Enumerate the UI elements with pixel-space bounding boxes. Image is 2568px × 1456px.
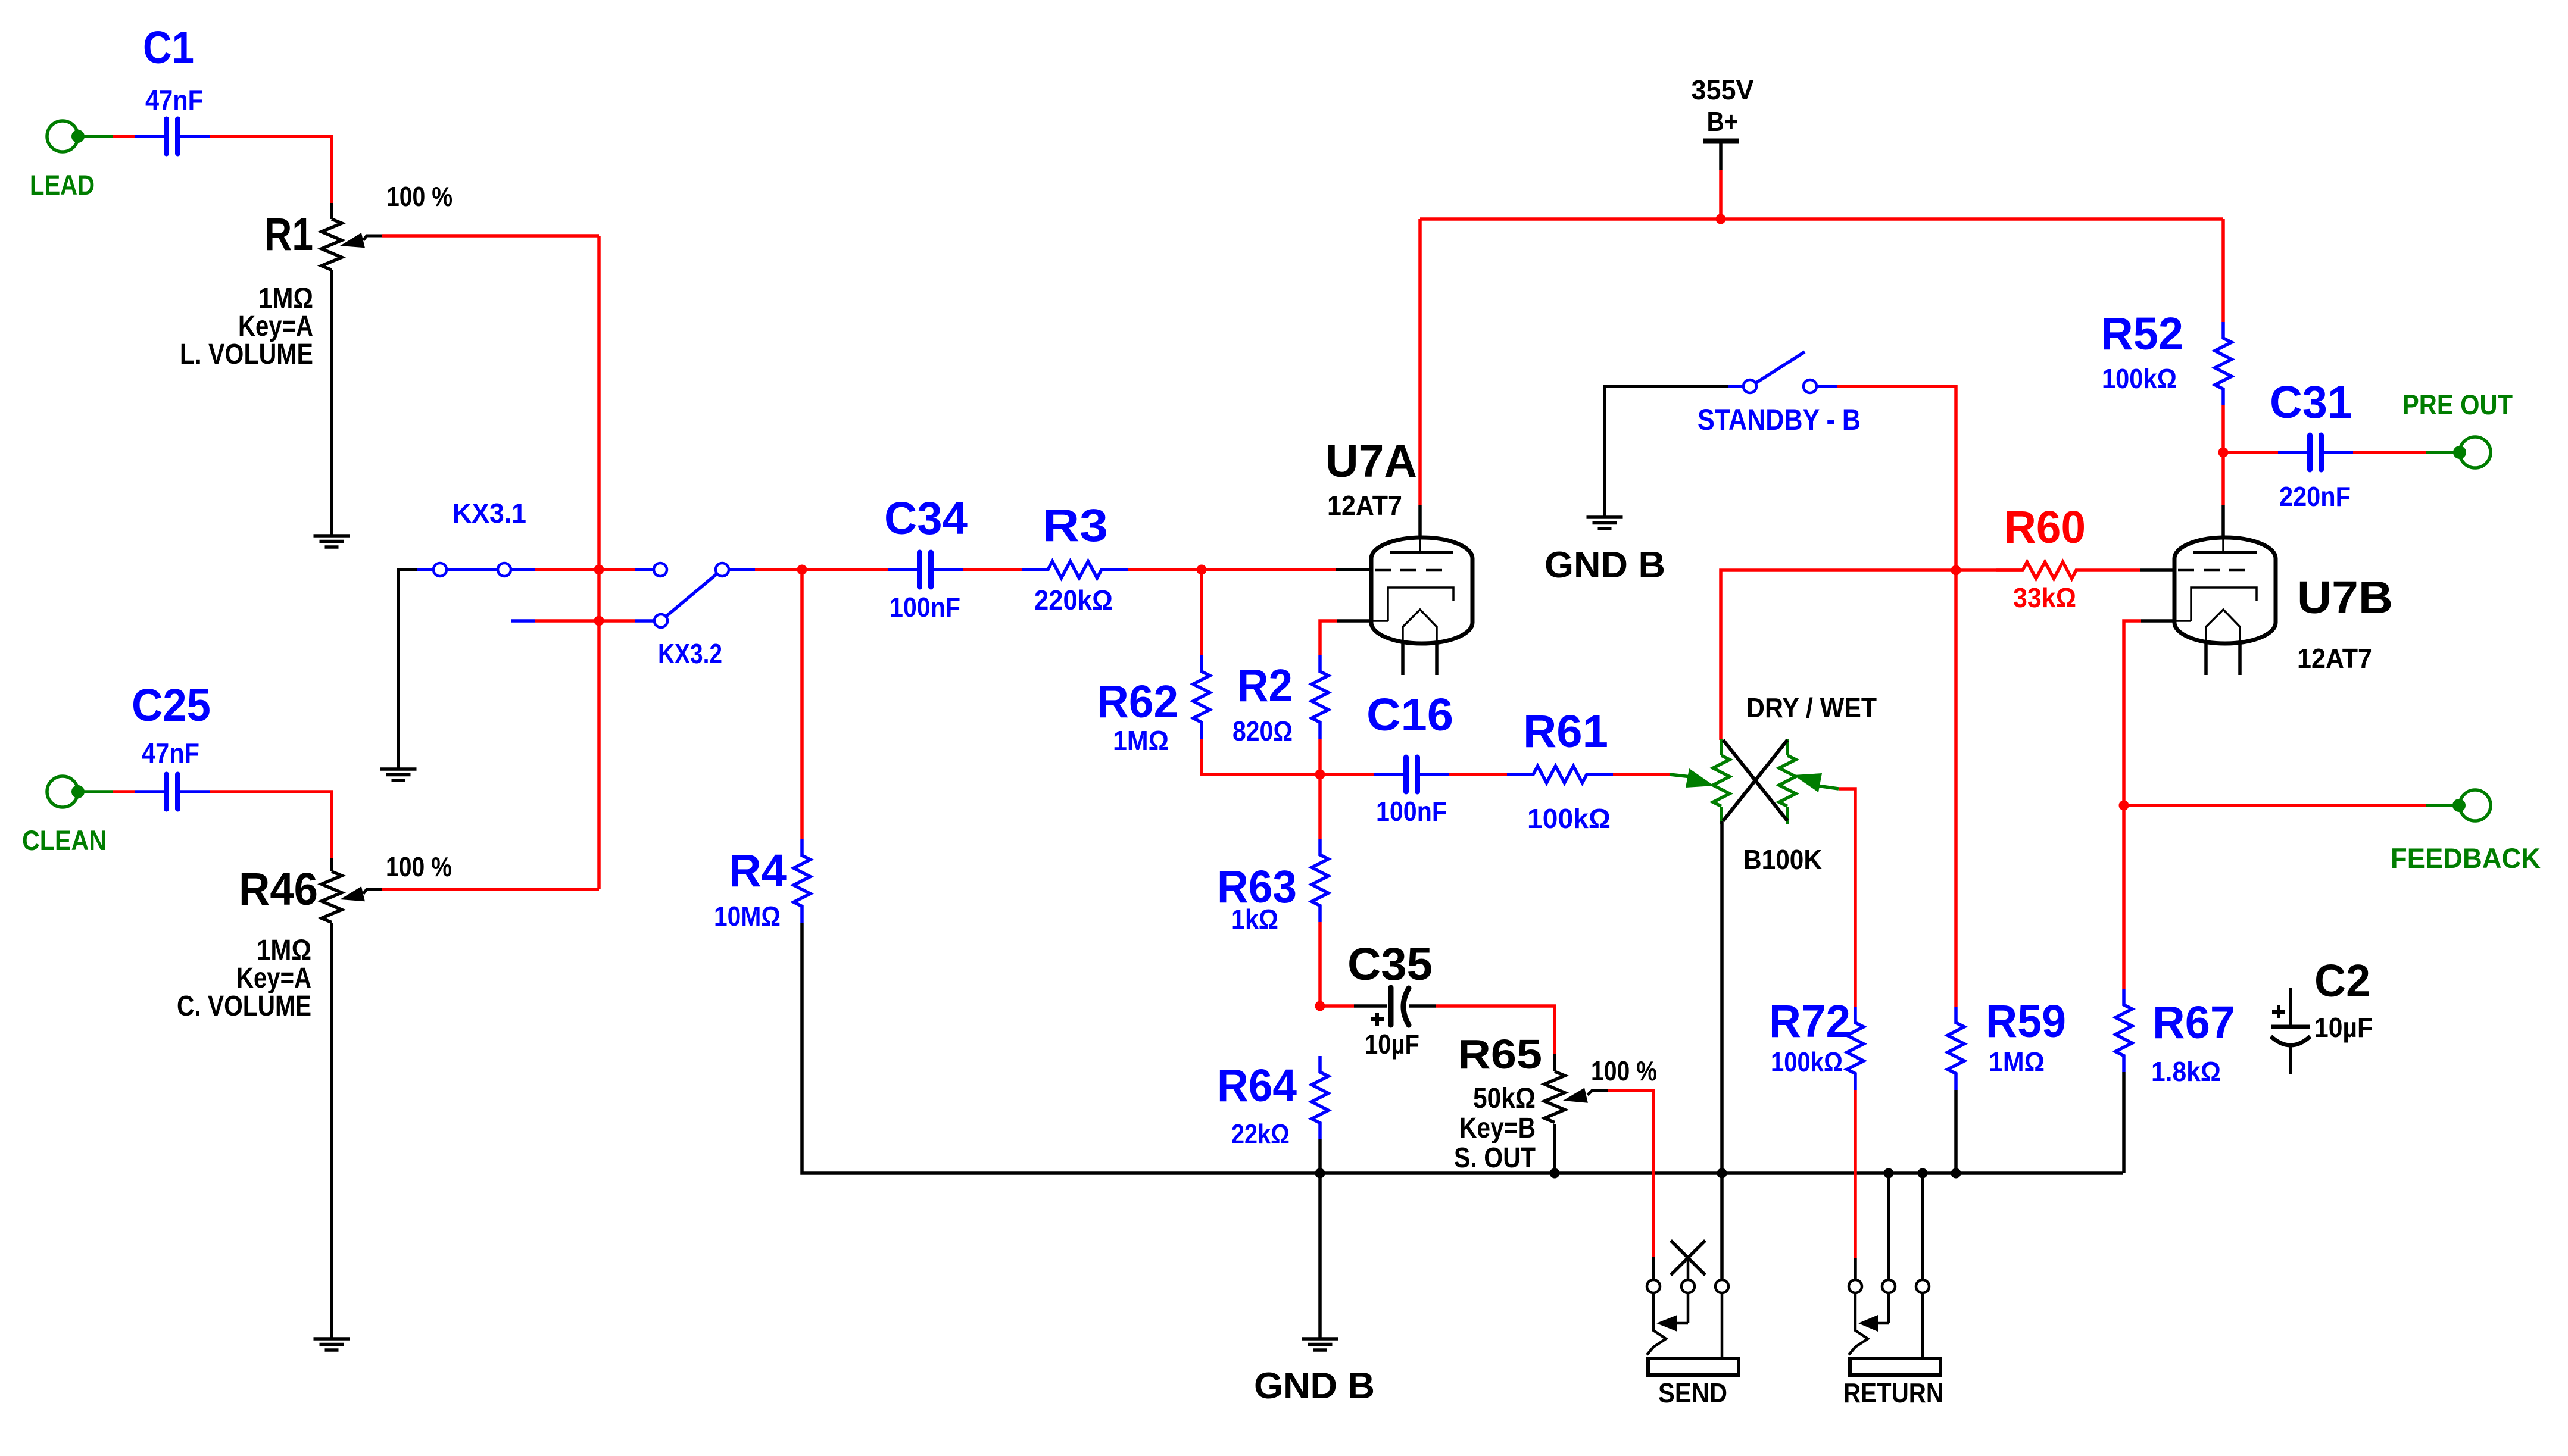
wire — [1605, 386, 1728, 517]
capacitor C16 — [1366, 689, 1453, 827]
svg-text:B100K: B100K — [1743, 844, 1822, 875]
terminal FEEDBACK — [2391, 790, 2541, 874]
wire — [1449, 773, 1507, 776]
svg-text:100 %: 100 % — [386, 181, 453, 212]
wire — [1336, 568, 1370, 571]
junction — [1197, 565, 1207, 575]
svg-text:R1: R1 — [264, 209, 313, 260]
wire — [1128, 568, 1336, 571]
wire — [382, 234, 599, 238]
svg-text:CLEAN: CLEAN — [22, 824, 107, 856]
resistor R64 — [1217, 1056, 1328, 1149]
svg-text:1MΩ: 1MΩ — [258, 283, 313, 314]
svg-text:820Ω: 820Ω — [1232, 715, 1293, 746]
wire — [1719, 170, 1723, 219]
resistor R52 — [2101, 308, 2232, 405]
wire — [330, 923, 333, 1339]
wire — [1954, 1090, 1958, 1173]
svg-text:10µF: 10µF — [1365, 1029, 1419, 1060]
capacitor C34 — [884, 493, 968, 623]
svg-text:100kΩ: 100kΩ — [1527, 803, 1611, 834]
wire — [113, 790, 135, 793]
ground — [314, 536, 350, 547]
svg-text:R61: R61 — [1523, 706, 1608, 757]
wire — [210, 136, 332, 203]
junction — [1315, 770, 1325, 780]
svg-text:R65: R65 — [1458, 1031, 1542, 1077]
svg-text:Key=B: Key=B — [1459, 1113, 1536, 1144]
wire — [1436, 1006, 1555, 1054]
svg-text:220kΩ: 220kΩ — [1034, 585, 1113, 615]
wire — [1318, 739, 1322, 774]
svg-text:R62: R62 — [1097, 676, 1178, 727]
resistor R4 — [714, 839, 810, 932]
svg-text:U7B: U7B — [2297, 572, 2393, 623]
svg-text:1MΩ: 1MΩ — [257, 935, 311, 966]
svg-text:12AT7: 12AT7 — [1327, 490, 1402, 521]
wire — [1418, 219, 1422, 505]
potentiometer R46 — [177, 851, 452, 1022]
wire — [1720, 1173, 1724, 1280]
wire — [535, 568, 635, 571]
svg-text:C2: C2 — [2314, 955, 2370, 1007]
resistor R59 — [1948, 996, 2066, 1090]
wire — [1721, 570, 2023, 740]
wire — [729, 568, 755, 571]
svg-text:PRE OUT: PRE OUT — [2402, 389, 2513, 420]
wire — [2221, 505, 2225, 538]
wire — [382, 888, 599, 891]
svg-text:47nF: 47nF — [145, 85, 203, 115]
resistor R62 — [1097, 655, 1210, 756]
junction — [1550, 1168, 1560, 1179]
wire — [1608, 1091, 1653, 1257]
wire — [800, 570, 804, 839]
svg-text:10µF: 10µF — [2314, 1012, 2373, 1043]
switch KX3.1 — [433, 498, 526, 576]
junction — [1716, 214, 1726, 224]
vacuum tube U7A — [1325, 436, 1472, 675]
label GND B — [1544, 545, 1665, 586]
svg-text:220nF: 220nF — [2279, 481, 2351, 512]
wire — [2426, 451, 2460, 454]
wire — [1839, 789, 1855, 1007]
wire — [1854, 1090, 1857, 1258]
resistor R60 — [1996, 502, 2102, 613]
wire — [113, 135, 135, 138]
svg-text:B+: B+ — [1707, 106, 1739, 137]
junction — [2119, 801, 2129, 811]
wire — [1420, 217, 2223, 221]
terminal CLEAN — [22, 776, 107, 856]
wire — [1553, 1124, 1556, 1173]
svg-text:SEND: SEND — [1658, 1377, 1727, 1408]
wire — [1613, 773, 1670, 776]
wire — [1318, 922, 1322, 1006]
svg-text:U7A: U7A — [1325, 436, 1417, 487]
wire — [635, 619, 654, 623]
svg-text:C1: C1 — [143, 22, 194, 73]
svg-text:1MΩ: 1MΩ — [1113, 725, 1169, 756]
wire — [511, 568, 535, 571]
svg-text:GND B: GND B — [1544, 545, 1665, 586]
wire — [1921, 1173, 1924, 1280]
svg-text:C34: C34 — [884, 493, 968, 544]
resistor R61 — [1507, 706, 1613, 834]
svg-text:LEAD: LEAD — [30, 169, 95, 201]
wire — [78, 790, 113, 793]
wire — [1954, 570, 1958, 1007]
svg-text:R72: R72 — [1769, 996, 1851, 1047]
wire — [511, 619, 535, 623]
wire — [2141, 619, 2174, 623]
svg-text:C. VOLUME: C. VOLUME — [177, 991, 311, 1022]
wire — [1318, 774, 1322, 839]
wire — [2122, 1072, 2126, 1173]
potentiometer R1 — [180, 181, 453, 370]
svg-text:GND B: GND B — [1254, 1366, 1375, 1407]
svg-text:100 %: 100 % — [386, 851, 452, 882]
wire — [1320, 621, 1337, 655]
junction — [1315, 1168, 1325, 1179]
svg-text:KX3.2: KX3.2 — [658, 638, 722, 669]
ground — [314, 1339, 350, 1350]
svg-text:R60: R60 — [2004, 502, 2086, 553]
svg-text:STANDBY - B: STANDBY - B — [1698, 403, 1861, 436]
wire — [1200, 570, 1203, 655]
svg-text:100kΩ: 100kΩ — [1771, 1046, 1843, 1077]
potentiometer R65 — [1454, 1031, 1657, 1174]
wire — [398, 570, 417, 769]
svg-text:R3: R3 — [1043, 500, 1108, 551]
wire — [1318, 1173, 1322, 1339]
junction — [1884, 1168, 1894, 1179]
vacuum tube U7B — [2174, 538, 2393, 675]
wire — [1817, 385, 1837, 388]
wire — [1337, 619, 1371, 623]
ground — [1587, 517, 1623, 529]
svg-text:R67: R67 — [2152, 997, 2235, 1048]
svg-text:47nF: 47nF — [142, 738, 199, 768]
capacitor C2 — [2271, 955, 2373, 1074]
svg-text:Key=A: Key=A — [236, 963, 311, 994]
wire — [1854, 1258, 1857, 1280]
potentiometer DRY/WET B100K — [1670, 692, 1877, 875]
svg-text:RETURN: RETURN — [1843, 1377, 1943, 1408]
wire — [1320, 1004, 1354, 1008]
ground — [380, 769, 417, 780]
junction — [2218, 448, 2229, 458]
svg-text:100nF: 100nF — [890, 592, 960, 623]
junction — [1717, 1168, 1727, 1179]
switch STANDBY-B — [1698, 352, 1861, 436]
svg-text:100kΩ: 100kΩ — [2102, 363, 2177, 394]
power B+ 355V — [1692, 74, 1754, 170]
svg-text:22kΩ: 22kΩ — [1231, 1118, 1290, 1149]
junction — [1951, 1168, 1961, 1179]
wire — [1318, 1139, 1322, 1173]
wire — [635, 568, 654, 571]
wire — [2223, 451, 2278, 454]
resistor R2 — [1232, 655, 1328, 746]
svg-text:R59: R59 — [1986, 996, 2066, 1047]
svg-text:50kΩ: 50kΩ — [1473, 1083, 1536, 1114]
ground — [1302, 1339, 1338, 1350]
wire — [755, 568, 888, 571]
svg-text:355V: 355V — [1692, 74, 1754, 105]
svg-text:R64: R64 — [1217, 1060, 1297, 1111]
svg-text:33kΩ: 33kΩ — [2013, 582, 2076, 613]
jack SEND — [1647, 1241, 1739, 1408]
wire — [2221, 219, 2225, 322]
resistor R72 — [1769, 996, 1864, 1090]
resistor R67 — [2115, 989, 2235, 1087]
capacitor C1 — [135, 22, 210, 154]
svg-text:DRY / WET: DRY / WET — [1746, 692, 1877, 723]
wire — [2140, 568, 2174, 572]
wire — [2426, 804, 2459, 807]
wire — [1320, 773, 1375, 776]
svg-text:12AT7: 12AT7 — [2297, 643, 2372, 674]
wire — [1652, 1257, 1655, 1280]
junction — [1315, 1001, 1325, 1011]
junction — [1951, 565, 1961, 576]
wire — [2353, 451, 2426, 454]
svg-text:1MΩ: 1MΩ — [1989, 1046, 2045, 1077]
svg-text:1.8kΩ: 1.8kΩ — [2151, 1056, 2221, 1087]
wire — [2124, 621, 2141, 989]
resistor R63 — [1217, 839, 1328, 935]
node B — [594, 616, 604, 626]
node A — [594, 565, 604, 575]
svg-text:R2: R2 — [1237, 660, 1293, 711]
svg-text:L. VOLUME: L. VOLUME — [180, 339, 313, 370]
svg-text:FEEDBACK: FEEDBACK — [2391, 842, 2541, 874]
svg-text:100 %: 100 % — [1591, 1055, 1657, 1086]
svg-text:C16: C16 — [1366, 689, 1453, 741]
svg-text:Key=A: Key=A — [238, 311, 313, 342]
svg-text:C31: C31 — [2270, 377, 2352, 428]
wire — [1837, 386, 1956, 570]
svg-text:S. OUT: S. OUT — [1454, 1142, 1536, 1174]
svg-text:R52: R52 — [2101, 308, 2183, 360]
terminal LEAD — [30, 121, 95, 201]
svg-text:KX3.1: KX3.1 — [453, 498, 526, 529]
svg-text:10MΩ: 10MΩ — [714, 901, 781, 932]
svg-text:100nF: 100nF — [1376, 796, 1447, 827]
svg-text:C35: C35 — [1347, 939, 1433, 990]
wire — [2102, 568, 2140, 572]
svg-text:1kΩ: 1kΩ — [1231, 904, 1278, 935]
junction — [797, 565, 807, 575]
label GND B — [1254, 1366, 1375, 1407]
wire — [535, 619, 635, 623]
wire — [802, 923, 2123, 1173]
junction — [1918, 1168, 1928, 1179]
svg-text:C25: C25 — [132, 680, 211, 731]
wire — [1887, 1173, 1890, 1280]
capacitor C35 — [1347, 939, 1436, 1060]
svg-text:R46: R46 — [239, 864, 318, 915]
wire — [330, 270, 333, 536]
wire — [2221, 405, 2225, 505]
wire — [597, 236, 601, 889]
wire — [1202, 739, 1315, 774]
wire — [417, 568, 433, 571]
switch KX3.2 — [654, 563, 729, 669]
capacitor C25 — [132, 680, 211, 809]
wire — [78, 135, 113, 138]
wire — [210, 792, 332, 858]
terminal PRE OUT — [2402, 389, 2513, 468]
wire — [1728, 385, 1743, 388]
jack RETURN — [1843, 1280, 1943, 1408]
resistor R3 — [1022, 500, 1128, 615]
svg-text:R4: R4 — [729, 845, 787, 896]
wire — [963, 568, 1022, 571]
wire — [2124, 804, 2426, 807]
wire — [1418, 505, 1422, 538]
capacitor C31 — [2270, 377, 2353, 512]
wire — [1720, 821, 1724, 1173]
